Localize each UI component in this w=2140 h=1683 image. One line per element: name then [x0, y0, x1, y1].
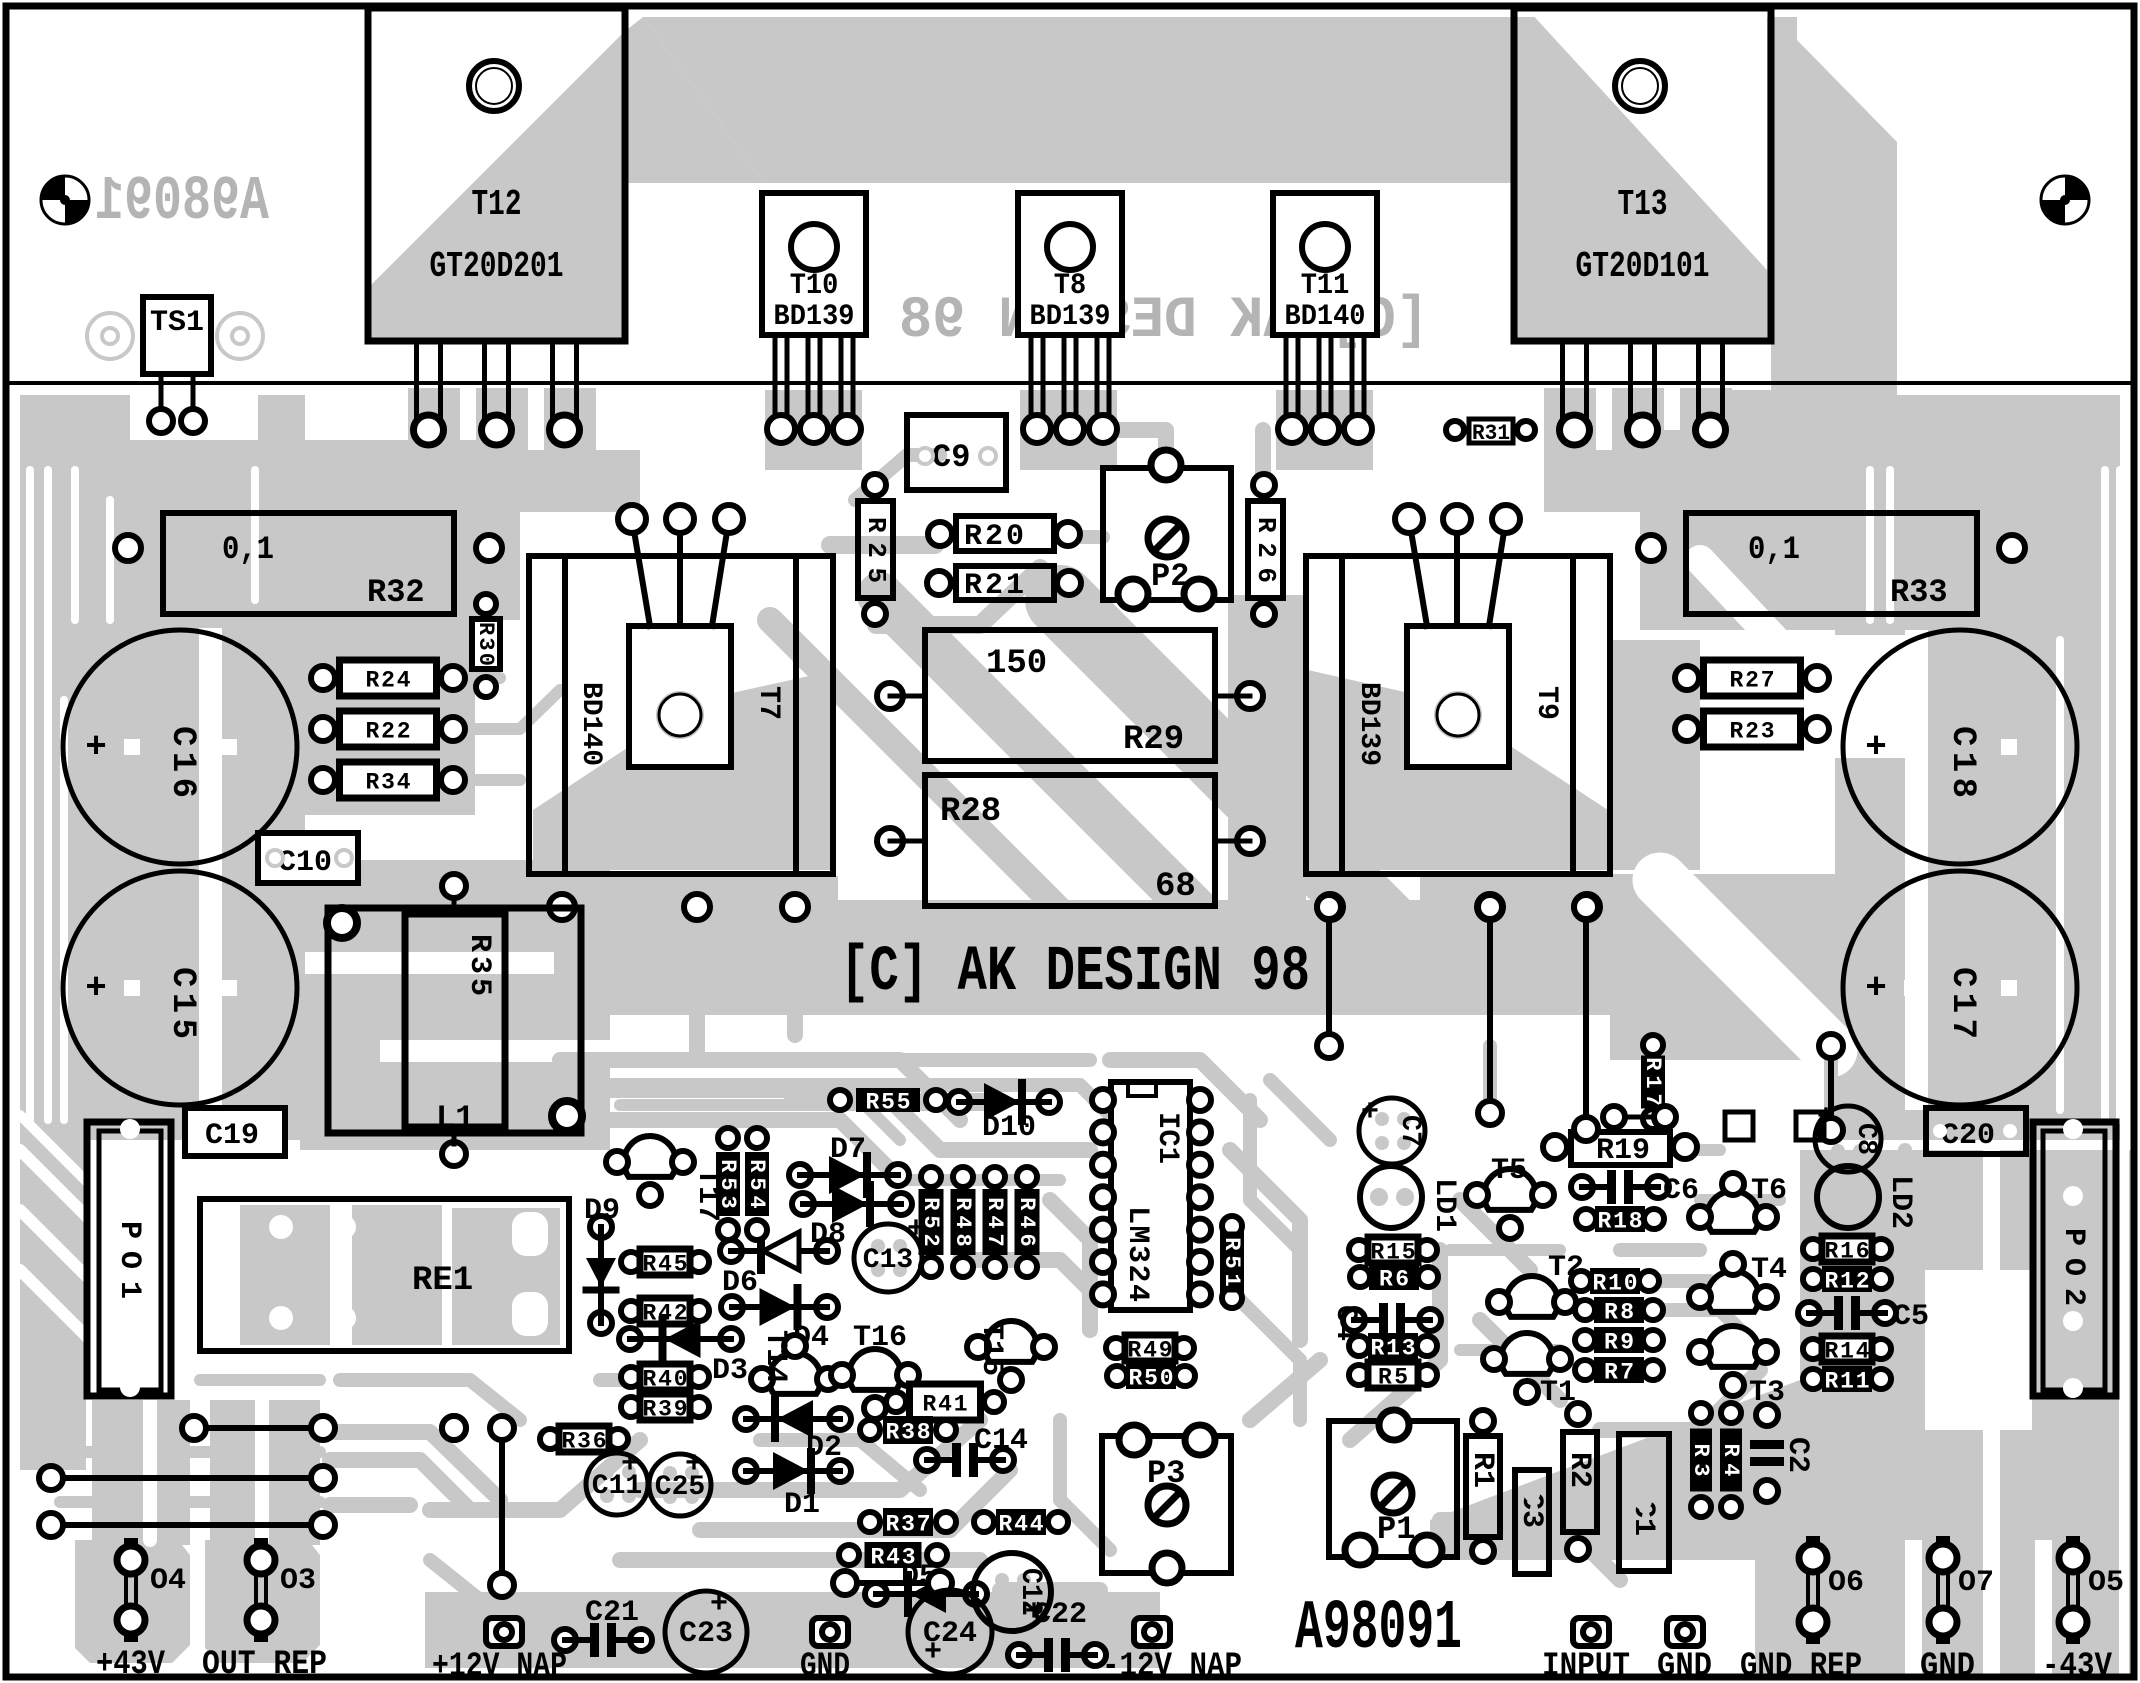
svg-text:T16: T16	[853, 1321, 907, 1355]
svg-text:R22: R22	[366, 719, 411, 745]
diode D10	[948, 1091, 970, 1113]
resistor R36	[540, 1429, 560, 1449]
svg-text:T10: T10	[790, 269, 839, 303]
resistor R53	[718, 1128, 738, 1148]
svg-text:+12V NAP: +12V NAP	[432, 1648, 567, 1683]
svg-text:R39: R39	[643, 1397, 688, 1423]
svg-text:T7: T7	[751, 686, 785, 720]
svg-text:O6: O6	[1828, 1566, 1864, 1600]
svg-text:R18: R18	[1598, 1209, 1643, 1235]
svg-text:-12V NAP: -12V NAP	[1102, 1648, 1242, 1683]
copper pour: left region	[20, 395, 305, 1140]
capacitor C5	[1798, 1302, 1820, 1324]
svg-text:0,1: 0,1	[222, 531, 274, 568]
resistor R5	[1349, 1365, 1369, 1385]
transistor T11 (BD140)	[1273, 193, 1377, 335]
resistor R34	[311, 768, 335, 792]
resistor R48	[953, 1167, 973, 1187]
capacitor C4	[1343, 1309, 1365, 1331]
capacitor C3	[1515, 1470, 1549, 1574]
resistor R45	[621, 1252, 641, 1272]
resistor R27	[1675, 666, 1699, 690]
capacitor C15	[63, 871, 297, 1105]
svg-text:R14: R14	[1825, 1339, 1870, 1365]
relay RE1	[200, 1199, 569, 1351]
resistor R52	[921, 1167, 941, 1187]
svg-text:R1: R1	[1465, 1452, 1499, 1488]
copper pour: top band	[643, 17, 1797, 183]
svg-text:T8: T8	[1054, 269, 1086, 303]
IC IC1 (LM324)	[1111, 1082, 1190, 1310]
capacitor C18	[1843, 630, 2077, 864]
svg-text:T11: T11	[1301, 269, 1350, 303]
resistor R38	[860, 1420, 880, 1440]
capacitor C11	[586, 1453, 648, 1515]
resistor R11	[1803, 1369, 1823, 1389]
svg-text:D3: D3	[712, 1354, 748, 1388]
transistor T14	[769, 1353, 821, 1394]
resistor R17	[1643, 1035, 1663, 1055]
svg-text:R48: R48	[950, 1197, 975, 1247]
diode D6	[720, 1240, 742, 1262]
svg-text:R34: R34	[366, 770, 411, 796]
connector pad -12V	[1134, 1618, 1170, 1646]
svg-text:OUT REP: OUT REP	[202, 1646, 327, 1683]
svg-text:C21: C21	[585, 1596, 639, 1630]
svg-text:PO1: PO1	[112, 1221, 146, 1299]
svg-text:C19: C19	[205, 1119, 259, 1153]
resistor R43	[839, 1545, 859, 1565]
transistor T16	[849, 1349, 901, 1390]
svg-text:+: +	[1865, 968, 1887, 1009]
capacitor C8	[1815, 1106, 1881, 1172]
transistor T2	[1506, 1276, 1558, 1317]
capacitor C24	[908, 1590, 992, 1674]
svg-text:R37: R37	[886, 1512, 931, 1538]
svg-text:T9: T9	[1529, 686, 1563, 720]
trimmer potentiometer P3	[1102, 1436, 1231, 1573]
transistor T4	[1707, 1271, 1759, 1312]
resistor R7	[1575, 1360, 1595, 1380]
svg-text:C18: C18	[1943, 726, 1981, 798]
transistor T13 (GT20D101)	[1514, 8, 1771, 341]
svg-text:LD1: LD1	[1427, 1178, 1461, 1232]
resistor R2	[1563, 1432, 1597, 1532]
capacitor C19	[185, 1108, 285, 1156]
svg-text:P1: P1	[1377, 1511, 1415, 1548]
svg-text:R31: R31	[1472, 421, 1510, 446]
svg-text:GND REP: GND REP	[1740, 1648, 1862, 1683]
copper pour: central band	[560, 900, 1610, 1015]
resistor R55	[830, 1090, 850, 1110]
svg-text:R29: R29	[1123, 721, 1184, 759]
diode D2	[735, 1408, 757, 1430]
capacitor C17	[1843, 871, 2077, 1105]
svg-text:D10: D10	[982, 1111, 1036, 1145]
svg-text:P3: P3	[1147, 1455, 1185, 1492]
resistor R33	[1686, 513, 1977, 614]
svg-text:-43V: -43V	[2042, 1648, 2113, 1683]
horizontal separation line	[6, 381, 2134, 385]
svg-text:R11: R11	[1825, 1369, 1870, 1395]
connector PO2	[2033, 1122, 2116, 1396]
svg-text:+: +	[1361, 1096, 1379, 1130]
svg-text:BD140: BD140	[575, 682, 606, 766]
svg-text:C7: C7	[1394, 1115, 1425, 1147]
pad ring left of TS1	[87, 313, 133, 359]
svg-text:A98091: A98091	[1295, 1590, 1462, 1669]
resistor R41	[886, 1392, 906, 1412]
svg-text:O3: O3	[280, 1564, 316, 1598]
wire W2	[51, 1475, 323, 1481]
transistor T10 (BD139)	[762, 193, 866, 335]
svg-text:T12: T12	[472, 184, 522, 225]
resistor R9	[1575, 1330, 1595, 1350]
connector O6	[1806, 1536, 1820, 1550]
transistor T17	[624, 1136, 676, 1177]
wire W3	[51, 1522, 323, 1528]
svg-text:+: +	[924, 1636, 942, 1670]
connector pad GND	[812, 1618, 848, 1646]
svg-text:BD140: BD140	[1285, 300, 1366, 334]
svg-text:+: +	[685, 1448, 703, 1482]
fiducial mark left	[41, 176, 89, 224]
svg-text:R26: R26	[1251, 517, 1281, 583]
connector PO1	[87, 1122, 171, 1396]
svg-text:BD139: BD139	[1353, 682, 1384, 766]
resistor R24	[311, 666, 335, 690]
connector pad INPUT	[1573, 1618, 1609, 1646]
wire W9	[1828, 1046, 1834, 1130]
wire near squares	[1614, 1115, 1665, 1120]
svg-text:+43V: +43V	[96, 1646, 165, 1683]
capacitor C13	[854, 1224, 922, 1292]
capacitor C23	[665, 1591, 747, 1673]
svg-text:+: +	[85, 968, 107, 1009]
svg-text:C23: C23	[679, 1617, 733, 1651]
fiducial mark right	[2041, 176, 2089, 224]
svg-text:IC1: IC1	[1150, 1112, 1184, 1164]
resistor R46	[1017, 1167, 1037, 1187]
svg-text:C10: C10	[278, 846, 332, 880]
transistor T8 (BD139)	[1018, 193, 1122, 335]
svg-text:R25: R25	[861, 517, 891, 583]
svg-text:R54: R54	[744, 1159, 769, 1209]
resistor R37	[860, 1512, 880, 1532]
trimmer potentiometer P1	[1329, 1421, 1457, 1557]
capacitor C7	[1359, 1098, 1425, 1164]
svg-text:R46: R46	[1014, 1197, 1039, 1247]
svg-text:C16: C16	[163, 726, 201, 798]
resistor R19	[1571, 1132, 1670, 1165]
capacitor C12	[973, 1553, 1051, 1631]
capacitor C10	[258, 833, 358, 883]
svg-text:LD2: LD2	[1883, 1175, 1917, 1229]
resistor R15	[1349, 1240, 1369, 1260]
wire W8	[1583, 907, 1589, 1129]
svg-text:C13: C13	[863, 1245, 913, 1276]
connector O7	[1936, 1536, 1950, 1550]
svg-text:C5: C5	[1893, 1300, 1929, 1334]
svg-text:R33: R33	[1890, 574, 1948, 611]
resistor R23	[1675, 717, 1699, 741]
svg-text:C20: C20	[1941, 1119, 1995, 1153]
svg-text:T15: T15	[974, 1322, 1008, 1376]
svg-text:R28: R28	[940, 793, 1001, 831]
svg-text:R2: R2	[1562, 1452, 1596, 1488]
capacitor C6	[1571, 1176, 1593, 1198]
copper pour: T13 interior	[1515, 17, 1771, 341]
resistor R32	[163, 513, 454, 614]
svg-text:R41: R41	[923, 1392, 968, 1418]
resistor R20	[956, 516, 1054, 551]
transistor T1	[1501, 1333, 1553, 1374]
svg-text:R49: R49	[1128, 1338, 1173, 1364]
svg-text:RE1: RE1	[412, 1262, 473, 1300]
svg-text:C9: C9	[932, 439, 970, 476]
resistor R12	[1803, 1269, 1823, 1289]
svg-text:D9: D9	[584, 1194, 620, 1228]
svg-text:T4: T4	[1751, 1253, 1787, 1287]
svg-text:C17: C17	[1943, 967, 1981, 1039]
svg-text:O7: O7	[1958, 1566, 1994, 1600]
svg-text:GT20D201: GT20D201	[430, 246, 564, 287]
resistor R16	[1803, 1239, 1823, 1259]
copper pour: bottom center band	[425, 1592, 1160, 1668]
pads below T7	[549, 894, 575, 920]
copper pour: right region	[1835, 395, 2120, 1140]
pads below T9	[1317, 894, 1343, 920]
svg-text:150: 150	[986, 645, 1047, 683]
svg-text:D8: D8	[810, 1218, 846, 1252]
resistor R42	[621, 1301, 641, 1321]
svg-text:R35: R35	[462, 934, 496, 996]
svg-text:C2: C2	[1780, 1437, 1814, 1473]
diode D9	[590, 1216, 612, 1238]
svg-text:C22: C22	[1033, 1598, 1087, 1632]
LED LD2 body	[1817, 1166, 1879, 1228]
svg-text:R44: R44	[999, 1512, 1044, 1538]
svg-text:TS1: TS1	[150, 306, 204, 340]
svg-text:R24: R24	[366, 668, 411, 694]
resistor R40	[621, 1367, 641, 1387]
capacitor C9	[907, 415, 1006, 490]
svg-text:R43: R43	[871, 1545, 916, 1571]
wire W7	[1487, 907, 1493, 1113]
svg-text:R12: R12	[1825, 1269, 1870, 1295]
svg-text:INPUT: INPUT	[1542, 1648, 1630, 1683]
resistor R18	[1576, 1209, 1596, 1229]
svg-text:GND: GND	[1657, 1648, 1712, 1683]
resistor R1	[1466, 1436, 1500, 1537]
wire W6	[1326, 907, 1332, 1046]
svg-text:C15: C15	[163, 967, 201, 1039]
capacitor C22	[1008, 1644, 1030, 1666]
transistor T6	[1707, 1191, 1759, 1232]
diode D7	[789, 1164, 811, 1186]
svg-text:+: +	[710, 1588, 728, 1622]
capacitor C21	[554, 1629, 576, 1651]
connector pad +12V	[486, 1618, 522, 1646]
inductor L1	[328, 908, 581, 1133]
svg-text:R53: R53	[715, 1159, 740, 1209]
resistor R26	[1248, 501, 1283, 598]
resistor R47	[985, 1167, 1005, 1187]
svg-text:R15: R15	[1371, 1240, 1416, 1266]
svg-text:BD139: BD139	[774, 300, 855, 334]
resistor R22	[311, 717, 335, 741]
svg-text:R20: R20	[964, 520, 1024, 554]
resistor R51	[1222, 1216, 1242, 1236]
wire W10	[451, 1425, 457, 1431]
square pad B	[1796, 1112, 1824, 1140]
svg-text:+: +	[621, 1448, 639, 1482]
svg-text:R50: R50	[1129, 1366, 1174, 1392]
transistor T3	[1707, 1326, 1759, 1367]
svg-text:D1: D1	[784, 1488, 820, 1522]
svg-text:R47: R47	[982, 1197, 1007, 1247]
copper pour: bottom right	[1430, 1150, 2133, 1676]
svg-text:R45: R45	[643, 1252, 688, 1278]
svg-text:R13: R13	[1371, 1336, 1416, 1362]
svg-text:C14: C14	[974, 1424, 1028, 1458]
capacitor C2	[1756, 1404, 1778, 1426]
svg-text:O5: O5	[2088, 1566, 2124, 1600]
transistor T9 (BD139)	[1306, 556, 1610, 874]
capacitor C25	[649, 1454, 711, 1516]
svg-text:R10: R10	[1593, 1271, 1638, 1297]
resistor R54	[747, 1128, 767, 1148]
svg-text:T13: T13	[1618, 184, 1668, 225]
wire W5	[499, 1428, 505, 1585]
resistor R29 (150)	[925, 630, 1215, 761]
wire W4	[845, 1580, 940, 1586]
connector O3	[254, 1538, 268, 1552]
trimmer potentiometer P2	[1103, 468, 1231, 600]
svg-text:BD139: BD139	[1030, 300, 1111, 334]
transistor T5	[1484, 1169, 1536, 1210]
resistor R14	[1803, 1339, 1823, 1359]
resistor R4	[1721, 1403, 1741, 1423]
resistor R25	[858, 501, 893, 598]
resistor R10	[1571, 1271, 1591, 1291]
resistor R50	[1107, 1366, 1127, 1386]
wire W1	[194, 1425, 323, 1431]
svg-text:R30: R30	[473, 622, 498, 666]
capacitor C1	[1619, 1434, 1669, 1571]
svg-text:C8: C8	[1850, 1123, 1881, 1155]
resistor R28 (68)	[925, 775, 1215, 906]
resistor R13	[1349, 1336, 1369, 1356]
connector O5	[2066, 1536, 2080, 1550]
svg-text:GT20D101: GT20D101	[1576, 246, 1710, 287]
transistor T7 (BD140)	[529, 556, 833, 874]
svg-text:GND: GND	[800, 1648, 850, 1683]
resistor R44	[974, 1512, 994, 1532]
resistor R31	[1469, 419, 1513, 443]
svg-text:O4: O4	[150, 1564, 186, 1598]
svg-text:T6: T6	[1751, 1174, 1787, 1208]
svg-text:68: 68	[1155, 868, 1196, 906]
svg-text:[C] AK DESIGN 98: [C] AK DESIGN 98	[840, 937, 1310, 1009]
capacitor C20	[1926, 1108, 2026, 1154]
resistor R3	[1691, 1403, 1711, 1423]
pad ring right of TS1	[217, 313, 263, 359]
resistor R39	[621, 1397, 641, 1417]
connector O4	[124, 1538, 138, 1552]
svg-text:R27: R27	[1730, 668, 1775, 694]
diode D3	[619, 1328, 641, 1350]
diode D5	[865, 1583, 887, 1605]
svg-text:C6: C6	[1663, 1174, 1699, 1208]
svg-text:GND: GND	[1920, 1648, 1975, 1683]
svg-text:R51: R51	[1219, 1237, 1244, 1287]
svg-text:R16: R16	[1825, 1239, 1870, 1265]
svg-text:R36: R36	[562, 1429, 607, 1455]
diode D1	[735, 1460, 757, 1482]
svg-text:R17: R17	[1640, 1057, 1665, 1107]
svg-text:PO2: PO2	[2056, 1228, 2090, 1306]
resistor R21	[956, 566, 1054, 600]
diode D4	[721, 1296, 743, 1318]
resistor R35	[405, 914, 505, 1127]
capacitor C16	[63, 630, 297, 864]
svg-text:R52: R52	[918, 1197, 943, 1247]
svg-text:T14: T14	[758, 1330, 792, 1384]
svg-text:R19: R19	[1596, 1134, 1650, 1168]
resistor R6	[1350, 1267, 1370, 1287]
diode D8	[792, 1193, 814, 1215]
svg-text:P2: P2	[1151, 558, 1189, 595]
svg-text:R55: R55	[866, 1090, 911, 1116]
connector pad GND2	[1667, 1618, 1703, 1646]
copper pour: center under T7/T9	[533, 670, 836, 870]
capacitor C14	[916, 1449, 938, 1471]
svg-text:+: +	[1865, 727, 1887, 768]
svg-text:D7: D7	[830, 1133, 866, 1167]
svg-text:R38: R38	[886, 1420, 931, 1446]
square pad A	[1725, 1112, 1753, 1140]
svg-text:+: +	[85, 727, 107, 768]
svg-text:R32: R32	[367, 574, 425, 611]
transistor T15	[985, 1321, 1037, 1362]
copper pour: T12 interior diagonal	[368, 32, 624, 341]
resistor R49	[1106, 1338, 1126, 1358]
thermal switch TS1	[143, 297, 211, 374]
LED LD1 body	[1360, 1166, 1422, 1228]
copper pour: O4 pad blob	[75, 1540, 190, 1663]
traces	[876, 568, 1040, 625]
svg-text:A98091: A98091	[95, 166, 269, 237]
svg-text:R40: R40	[643, 1367, 688, 1393]
svg-text:LM324: LM324	[1120, 1206, 1154, 1302]
svg-text:0,1: 0,1	[1748, 531, 1800, 568]
svg-text:T5: T5	[1491, 1154, 1527, 1188]
resistor R30	[472, 619, 500, 669]
svg-text:R21: R21	[964, 569, 1024, 603]
transistor T12 (GT20D201)	[368, 8, 625, 341]
resistor R8	[1575, 1300, 1595, 1320]
svg-text:R23: R23	[1730, 719, 1775, 745]
